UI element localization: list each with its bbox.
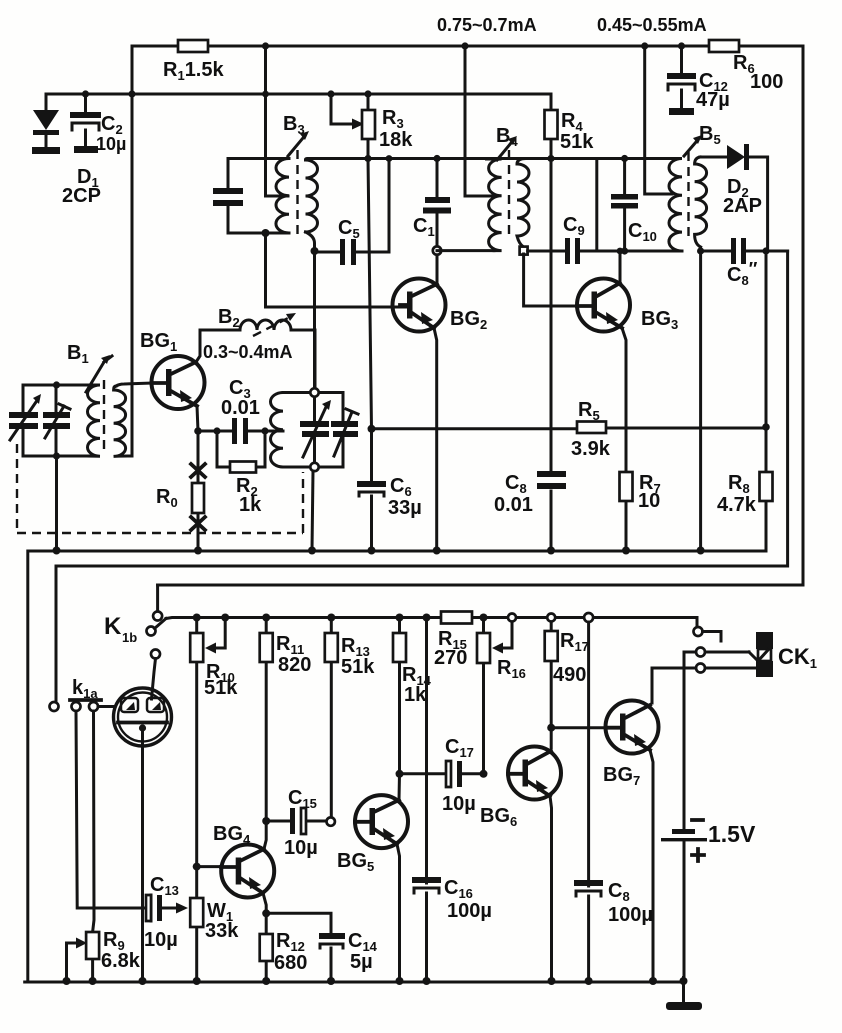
wire: BG6 emitter down to bus <box>550 796 552 982</box>
resistor R11 <box>260 618 273 822</box>
node: B4 feed on top rail <box>461 42 468 49</box>
node: C10 bottom junction <box>621 247 628 254</box>
svg-text:0.3~0.4mA: 0.3~0.4mA <box>203 342 293 362</box>
wire: supply line to K1b x=157.6 <box>156 585 159 610</box>
jack CK1 contacts <box>694 627 758 673</box>
transistor BG1 <box>152 356 205 409</box>
label R17 490 <box>553 630 589 686</box>
label BG1 <box>140 330 177 354</box>
wire: B4 tap feed vertical x=465 <box>465 46 494 196</box>
wire: battery feed from CK1 middle contact <box>684 652 696 822</box>
label R13 51k <box>341 635 375 678</box>
transformer B4 core <box>508 150 510 240</box>
label C12 47u <box>696 70 730 111</box>
svg-text:K: K <box>104 613 122 640</box>
node: B3 tank bottom junction <box>262 229 270 237</box>
label BG4 <box>213 823 251 847</box>
label B2 <box>218 306 240 330</box>
label k1a <box>72 677 98 701</box>
wire: tank bottom to ground bus <box>312 471 313 550</box>
wire: K1b to lower supply bus <box>166 618 697 619</box>
oscillator tank top wire <box>283 391 343 394</box>
wire: BG1 collector to B2 <box>196 330 240 362</box>
label K1b <box>104 613 137 645</box>
label C17 10u <box>442 736 476 815</box>
node: B5 secondary bottom junction <box>697 247 704 254</box>
svg-text:R16: R16 <box>497 657 526 681</box>
resistor R1 <box>178 40 208 52</box>
svg-text:51k: 51k <box>204 677 238 699</box>
lower supply bus nodes <box>193 613 593 622</box>
wire: B1 tank bottom <box>23 455 88 458</box>
svg-text:R5: R5 <box>578 399 600 423</box>
label BG6 <box>480 805 517 829</box>
wire: R3 node down to AGC node x=370 <box>368 159 372 429</box>
node: top rail / B3 tap feed <box>262 42 269 49</box>
node: C1 top on long wire <box>433 155 440 162</box>
wire: B3 tap feed vertical x=265.5 <box>266 46 289 196</box>
label R4 51k <box>560 110 594 153</box>
resistor R15 in series <box>441 612 472 624</box>
label BG7 <box>603 764 640 788</box>
label B1 <box>67 342 89 366</box>
wire: emitter node to C14 <box>266 913 331 982</box>
wire: B3 adjust arrow <box>288 131 309 156</box>
svg-text:1b: 1b <box>122 630 137 645</box>
svg-text:C5: C5 <box>338 217 360 241</box>
battery B 1.5V <box>661 652 707 978</box>
svg-text:BG7: BG7 <box>603 764 640 788</box>
wire: B4 primary bottom wire <box>437 249 494 252</box>
label D2 2AP <box>723 176 762 217</box>
wire: R10 arrow feed <box>205 618 225 654</box>
wire: BG1 emitter down <box>197 406 198 431</box>
transformer B3 primary coil <box>276 159 289 234</box>
svg-text:BG3: BG3 <box>641 308 678 332</box>
node: detector output junction <box>762 247 769 254</box>
resistor R17 <box>545 622 558 728</box>
wire: BG7 collector to CK1 lower contact <box>652 668 696 703</box>
node: C5 right leg joins long wire <box>386 155 393 162</box>
node: BG4 emitter junction <box>262 909 270 917</box>
svg-text:R17: R17 <box>560 630 589 654</box>
svg-text:R8: R8 <box>728 472 750 496</box>
label C16 100u <box>444 877 492 922</box>
wire: BG4 base from W1 node <box>197 865 221 868</box>
transformer B5 core <box>687 152 689 242</box>
wire: upper ground bus y=550 <box>28 548 766 982</box>
transformer B1 secondary coil <box>114 386 132 456</box>
wire: R5 line y=428 <box>372 427 767 431</box>
capacitor C17 <box>400 761 484 787</box>
label B4 <box>496 125 518 149</box>
transformer B1 tuning gang capacitor a <box>9 385 41 456</box>
capacitor C8 <box>537 471 566 551</box>
label D1 2CP <box>62 166 101 207</box>
switch K1a <box>50 700 102 711</box>
node: R3 top on rail2 <box>364 90 371 97</box>
svg-text:R0: R0 <box>156 486 178 510</box>
oscillator gang capacitor d (right leg) <box>331 393 358 468</box>
capacitor C15 <box>266 808 326 834</box>
node: B4 secondary bottom square junction <box>520 247 528 255</box>
node: junction rail2/C2 <box>82 90 89 97</box>
wire: B1 tank top <box>23 384 88 387</box>
label 1.5V <box>708 821 756 847</box>
capacitor C6 <box>357 429 386 550</box>
resistor R0 with X marks <box>191 431 205 551</box>
node: C17 right junction <box>480 770 488 778</box>
resistor R12 <box>260 934 273 961</box>
transformer B1 tuning gang capacitor b <box>43 385 70 456</box>
transformer B4 primary coil <box>487 159 502 251</box>
ground symbol <box>666 982 702 1010</box>
transistor BG5 <box>355 795 408 848</box>
label R12 680 <box>274 930 307 974</box>
transformer B4 secondary coil <box>517 159 529 248</box>
capacitor C12 <box>667 46 696 115</box>
oscillator gang capacitor c <box>300 396 331 463</box>
svg-text:C13: C13 <box>150 874 179 898</box>
capacitor C3 <box>198 418 265 444</box>
node: BG4 collector / C15 junction <box>262 817 270 825</box>
svg-text:B5: B5 <box>699 123 721 147</box>
node: tank bottom open circle <box>310 463 318 471</box>
svg-text:C9: C9 <box>563 214 585 238</box>
capacitor B3 tank cap <box>213 159 243 234</box>
node: B1 top junction <box>53 381 60 388</box>
capacitor C8pp <box>701 238 788 264</box>
dashed gang linkage <box>17 444 303 533</box>
resistor R8 <box>760 427 773 551</box>
wire: audio takeoff right border x=787.6 <box>56 251 788 566</box>
wire: B1 adjust arrow <box>86 355 112 392</box>
wire: bottom ground bus <box>25 978 684 983</box>
node: C3 left junction <box>213 427 220 434</box>
svg-text:C8: C8 <box>505 472 527 496</box>
svg-text:33µ: 33µ <box>388 497 422 519</box>
label W1 33k <box>205 900 239 942</box>
label B5 <box>699 123 721 147</box>
svg-text:33k: 33k <box>205 920 239 942</box>
node: BG3 collector junction <box>617 248 624 255</box>
wire: BG3 collector up to C9 wire <box>619 251 622 283</box>
label CK1 <box>778 644 817 671</box>
label C15 10u <box>284 787 318 859</box>
svg-text:C15: C15 <box>288 787 317 811</box>
label R16 <box>497 657 526 681</box>
svg-text:2AP: 2AP <box>723 195 762 217</box>
resistor R13 <box>325 618 338 818</box>
jack CK1 body <box>749 632 773 677</box>
transistor BG6 <box>508 747 561 800</box>
wire: B5 secondary top to D2 <box>700 156 727 159</box>
svg-text:B3: B3 <box>283 113 305 137</box>
svg-text:1k: 1k <box>239 494 262 516</box>
svg-text:10: 10 <box>638 490 660 512</box>
svg-text:R12: R12 <box>276 930 305 954</box>
svg-text:5µ: 5µ <box>350 951 373 973</box>
wire: lower bus right end to CK1 <box>696 618 699 627</box>
node: tank top open circle <box>310 388 318 396</box>
svg-text:0.75~0.7mA: 0.75~0.7mA <box>437 15 537 35</box>
wire: B3 secondary bottom drop <box>306 232 315 251</box>
svg-text:100µ: 100µ <box>608 904 653 926</box>
label R1 1.5k <box>163 59 224 83</box>
transformer B5 secondary coil <box>695 157 707 247</box>
label C8'' <box>727 259 758 288</box>
transformer B3 core <box>296 150 298 238</box>
label R5 3.9k <box>571 399 611 460</box>
svg-text:1k: 1k <box>404 684 427 706</box>
loop antenna / motor symbol <box>114 688 172 746</box>
node: R5 right junction <box>762 423 770 431</box>
label R11 820 <box>276 633 311 676</box>
label R14 1k <box>402 664 432 706</box>
label C9 <box>563 214 585 238</box>
node: C17 left junction <box>396 770 404 778</box>
svg-text:820: 820 <box>278 654 311 676</box>
svg-text:B1: B1 <box>67 342 89 366</box>
transformer B5 primary coil <box>669 159 682 252</box>
transistor BG2 <box>393 279 446 332</box>
wire: tank bottom junction down to BG2 base wire <box>266 233 409 307</box>
svg-text:C10: C10 <box>628 220 657 244</box>
capacitor C5 <box>315 159 390 266</box>
svg-text:10µ: 10µ <box>96 134 126 154</box>
label C14 5u <box>348 930 378 973</box>
svg-text:10µ: 10µ <box>144 929 178 951</box>
label C10 <box>628 220 657 244</box>
label R6 100 <box>733 52 783 93</box>
capacitor C16 <box>412 877 441 893</box>
wire: detector coupling wire y=251 C9 to B5 <box>597 250 682 253</box>
wire: B5 tap feed from top rail x=644.7 <box>645 46 672 194</box>
label BG2 <box>450 308 487 332</box>
node: C1 bottom open junction <box>433 246 441 254</box>
wire: R17 node down to BG6 collector <box>550 728 553 748</box>
resistor R10 <box>190 618 203 867</box>
label R2 1k <box>236 475 262 516</box>
wire: B3 sec bottom to oscillator tank vertical <box>313 251 316 393</box>
transistor BG7 <box>606 701 659 754</box>
svg-text:B2: B2 <box>218 306 240 330</box>
svg-text:10µ: 10µ <box>442 793 476 815</box>
wire: B4 adjust arrow <box>497 136 517 160</box>
svg-text:BG4: BG4 <box>213 823 251 847</box>
svg-text:0.45~0.55mA: 0.45~0.55mA <box>597 15 707 35</box>
svg-text:BG5: BG5 <box>337 850 374 874</box>
label C3 0.01 <box>221 377 260 419</box>
label R9 6.8k <box>101 929 141 972</box>
transistor BG4 <box>221 845 274 898</box>
wire: BG2 collector up to C1 <box>436 255 439 284</box>
node: W1 top junction <box>193 863 201 871</box>
svg-text:BG1: BG1 <box>140 330 177 354</box>
bottom bus junction dots <box>63 977 688 985</box>
svg-text:51k: 51k <box>341 656 375 678</box>
transformer B1 core <box>103 380 105 452</box>
resistor R16 <box>477 618 490 774</box>
label C5 <box>338 217 360 241</box>
svg-text:C8: C8 <box>608 880 630 904</box>
node: C12 top on rail <box>678 42 685 49</box>
svg-text:51k: 51k <box>560 131 594 153</box>
transformer B3 secondary coil <box>306 160 318 232</box>
wire: detector output down to R5/R8 <box>765 251 768 427</box>
capacitor C13 <box>146 895 188 921</box>
svg-text:3.9k: 3.9k <box>571 438 611 460</box>
svg-text:270: 270 <box>434 647 467 669</box>
resistor R6 <box>709 40 739 52</box>
wire: B3 secondary top to long wire <box>306 159 369 161</box>
potentiometer W1 <box>190 867 203 982</box>
resistor R7 <box>620 472 633 501</box>
svg-text:6.8k: 6.8k <box>101 950 141 972</box>
node: R17 bottom junction <box>547 724 555 732</box>
label R0 <box>156 486 178 510</box>
wire: BG5 collector up to C17 node <box>398 774 402 800</box>
wire: BG7 base from R17 node <box>551 726 606 729</box>
node: B1 bottom junction <box>53 452 60 459</box>
label C1 <box>413 215 435 239</box>
label C2 10u <box>96 113 126 154</box>
node: junction rail2/x132 <box>128 90 135 97</box>
node: tap feed crosses rail2 <box>262 91 269 98</box>
inductor B2 tank coil <box>271 393 284 468</box>
resistor R2 parallel loop <box>217 431 265 473</box>
label B3 <box>283 113 305 137</box>
wire: R3 arrow feed <box>331 94 364 130</box>
wire: K1b lower contact to loop antenna <box>152 659 156 700</box>
wire: C16 branch x=426.5 <box>425 622 428 982</box>
wire: BG7 emitter down to bus <box>650 750 653 982</box>
capacitor C10 <box>611 159 638 252</box>
label 0.75~0.7mA <box>437 15 537 35</box>
capacitor C1 <box>423 159 451 248</box>
transistor BG3 <box>577 279 630 332</box>
diode D1 <box>32 94 60 154</box>
wire: R4 node down to C8 <box>550 159 553 472</box>
wire: K1a audio down to C13 <box>76 711 151 908</box>
wire: left drop from top rail to rail2 x=132 <box>131 46 134 456</box>
node: AGC node C6/R5 <box>368 425 376 433</box>
svg-text:100: 100 <box>750 71 783 93</box>
oscillator tank bottom wire <box>283 466 343 469</box>
label 0.3~0.4mA <box>203 342 293 362</box>
node: B3 secondary bottom junction <box>311 247 319 255</box>
label R15 270 <box>434 628 467 669</box>
capacitor C14 <box>319 933 345 948</box>
svg-text:2CP: 2CP <box>62 185 101 207</box>
node: R3 bottom junction <box>364 155 371 162</box>
label C13 10u <box>144 874 179 951</box>
svg-text:490: 490 <box>553 664 586 686</box>
node: R3 arrow feed on rail2 <box>327 90 334 97</box>
svg-text:100µ: 100µ <box>447 900 492 922</box>
svg-text:0.01: 0.01 <box>221 397 260 419</box>
node: bus dots upper ground <box>53 547 705 555</box>
label R10 51k <box>204 661 238 699</box>
label 0.45~0.55mA <box>597 15 707 35</box>
wire: long AGC wire y=158.5 from R3 to B5 <box>368 157 673 160</box>
wire: B5 sec bottom branch down x=700.6 <box>699 251 702 551</box>
wire: B1 secondary top to BG1 base <box>116 383 152 386</box>
svg-text:0.01: 0.01 <box>494 494 533 516</box>
label BG3 <box>641 308 678 332</box>
svg-text:CK1: CK1 <box>778 644 817 671</box>
capacitor C18 <box>574 880 603 896</box>
resistor R3 <box>362 94 375 159</box>
wire: C18 branch <box>587 622 590 982</box>
wire: B4 secondary bottom to BG3 base <box>524 254 576 306</box>
capacitor C2 <box>70 94 101 153</box>
svg-text:C16: C16 <box>444 877 473 901</box>
svg-text:k1a: k1a <box>72 677 98 701</box>
node: B5 feed on top rail <box>641 42 648 49</box>
inductor B2 oscillator coil <box>240 320 315 393</box>
wire: loop bottom to ground bus <box>141 728 144 982</box>
node: C10 top on long wire <box>621 155 628 162</box>
resistor R14 <box>393 618 406 774</box>
wire: B1 gang to ground bus <box>55 456 58 551</box>
wire: B3 tank top y=158.5 <box>228 157 289 160</box>
node: C3 right junction <box>261 427 268 434</box>
resistor R4 <box>545 94 558 159</box>
svg-text:47µ: 47µ <box>696 89 730 111</box>
wire: R16 arrow feed <box>492 622 512 654</box>
wire: BG2 emitter down to bus <box>434 328 437 550</box>
resistor R5 <box>577 422 606 434</box>
label R7 10 <box>638 472 661 512</box>
wire: right border from top rail x=803 <box>158 46 803 585</box>
svg-text:680: 680 <box>274 952 307 974</box>
svg-text:C17: C17 <box>445 736 474 760</box>
wire: B5 adjust arrow <box>684 135 702 156</box>
switch K1b <box>147 612 167 659</box>
wire: B3 tank bottom y=233 <box>228 232 289 235</box>
wire: K1a to R9 top <box>93 711 94 932</box>
svg-text:1.5V: 1.5V <box>708 821 756 847</box>
wire: BG5 emitter down to bus <box>397 844 400 982</box>
svg-text:R3: R3 <box>382 107 404 131</box>
svg-text:4.7k: 4.7k <box>717 494 757 516</box>
wire: C3 right to oscillator tank <box>265 430 283 433</box>
wire: BG4 emitter down <box>263 893 266 982</box>
wire: B2 adjust arrow <box>253 313 296 336</box>
node: BG1 emitter junction <box>194 427 202 435</box>
label C8 0.01 <box>494 472 533 516</box>
svg-text:R11.5k: R11.5k <box>163 59 224 83</box>
svg-text:18k: 18k <box>379 129 413 151</box>
svg-text:BG2: BG2 <box>450 308 487 332</box>
label C18 100u <box>608 880 653 926</box>
capacitor C9 <box>528 159 597 265</box>
resistor R9 <box>67 932 100 982</box>
wire: K1a contact to loop <box>98 705 114 708</box>
wire: second rail y=94 <box>46 93 551 96</box>
diode D2 <box>727 144 768 251</box>
wire: BG4 collector up to R11 node <box>264 821 266 849</box>
label C6 33u <box>388 475 422 519</box>
node: R4 bottom on long wire <box>547 155 554 162</box>
node: BG5 base open junction <box>327 817 335 825</box>
wire: BG3 emitter down with R7 <box>622 328 626 551</box>
svg-text:C1: C1 <box>413 215 435 239</box>
transformer B1 primary coil <box>87 385 100 456</box>
wire: top supply rail y=46 <box>132 45 803 48</box>
svg-text:BG6: BG6 <box>480 805 517 829</box>
